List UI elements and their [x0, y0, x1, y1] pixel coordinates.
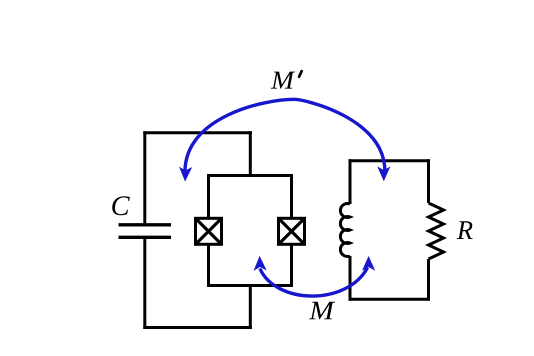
- label C: [112, 196, 130, 215]
- capacitor C bottom plate: [119, 236, 172, 239]
- mutual inductance M arc (bottom, double arrow): [260, 268, 368, 297]
- Josephson junction J1 cross: [196, 219, 220, 243]
- label M': [271, 72, 295, 89]
- M' arrowhead left: [179, 167, 193, 182]
- wire: SQUID loop left side upper: [207, 174, 210, 219]
- wire: left loop left side lower (capacitor to bottom): [143, 237, 146, 329]
- label M prime mark: [299, 71, 302, 77]
- wire: right loop bottom edge: [349, 298, 431, 301]
- wire: right loop top edge: [349, 159, 431, 162]
- M arrowhead left: [253, 256, 267, 271]
- M arrowhead right: [362, 256, 375, 271]
- wire: SQUID loop left side lower: [207, 244, 210, 288]
- Josephson junction J2 (right) box: [279, 218, 305, 244]
- label R: [457, 221, 473, 239]
- mutual inductance M' arc (top, double arrow): [185, 99, 385, 174]
- wire: SQUID loop top edge: [207, 174, 293, 177]
- label M: [309, 302, 335, 320]
- wire: right loop right side upper (to resistor): [427, 159, 430, 203]
- inductor coil (4 loops): [340, 204, 350, 257]
- M' arrowhead right: [377, 166, 390, 181]
- wire: left loop left side upper (to capacitor): [143, 131, 146, 225]
- wire: SQUID loop right side lower: [290, 244, 293, 288]
- wire: SQUID loop bottom edge: [207, 284, 293, 287]
- wire: SQUID loop right side upper: [290, 174, 293, 219]
- Josephson junction J1 (left) box: [196, 218, 222, 244]
- wire: left loop top edge: [143, 131, 252, 134]
- wire: connector from top edge down to SQUID loop: [249, 131, 252, 177]
- resistor R zigzag: [429, 203, 444, 259]
- wire: right loop right side lower (resistor to bottom): [427, 259, 430, 301]
- wire: right loop left side lower (inductor to bottom): [349, 256, 352, 301]
- wire: left loop bottom edge: [143, 326, 252, 329]
- Josephson junction J2 cross: [279, 219, 303, 243]
- wire: right loop left side upper (to inductor): [349, 159, 352, 204]
- capacitor C top plate: [119, 223, 172, 226]
- wire: connector from SQUID loop down to bottom edge: [249, 284, 252, 329]
